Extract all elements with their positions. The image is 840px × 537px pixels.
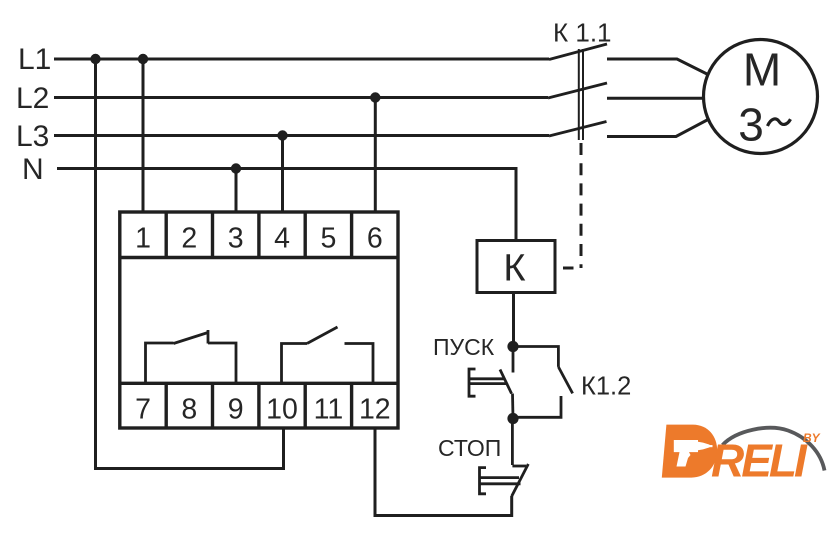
svg-text:RELI: RELI — [711, 435, 808, 487]
svg-text:8: 8 — [181, 394, 197, 426]
svg-text:L2: L2 — [16, 82, 49, 115]
phase wire U to motor — [607, 59, 709, 75]
svg-text:3: 3 — [738, 99, 764, 151]
svg-text:2: 2 — [181, 223, 197, 255]
contactor contact K1.1 bars — [579, 49, 583, 140]
svg-text:К 1.1: К 1.1 — [553, 18, 612, 48]
svg-text:6: 6 — [367, 223, 383, 255]
junction N terminal 3 — [231, 163, 241, 173]
wire L2 — [54, 96, 548, 99]
wire L3 — [54, 134, 549, 137]
logo letter D with drill — [662, 425, 717, 478]
svg-text:11: 11 — [314, 394, 344, 426]
relay A1 outline — [120, 212, 398, 428]
svg-text:К: К — [503, 248, 525, 290]
junction L1 bypass — [90, 54, 100, 64]
wire N to coil K — [57, 169, 516, 241]
relay contact 7-9 — [146, 330, 237, 383]
svg-text:L1: L1 — [18, 43, 51, 76]
svg-text:4: 4 — [274, 223, 290, 255]
dash at coil — [563, 267, 574, 270]
logo swoosh — [723, 428, 825, 471]
relay terminal strip lines — [120, 212, 398, 428]
svg-text:К1.2: К1.2 — [581, 373, 631, 401]
svg-text:7: 7 — [135, 394, 151, 426]
phase wire V to motor — [607, 97, 704, 100]
wire L1 bypass to terminal 10 — [96, 59, 284, 469]
svg-text:3: 3 — [228, 223, 244, 255]
junction L3 terminal 4 — [277, 130, 287, 140]
svg-text:ПУСК: ПУСК — [433, 334, 495, 360]
start button SB1 ПУСК — [469, 347, 513, 419]
svg-text:1: 1 — [135, 223, 151, 255]
svg-text:N: N — [22, 153, 44, 186]
junction L2 terminal 6 — [370, 92, 380, 102]
junction L1 terminal 1 — [138, 54, 148, 64]
motor M1 circle — [704, 40, 818, 154]
svg-text:СТОП: СТОП — [438, 435, 501, 461]
relay contact 10-12 — [282, 327, 374, 383]
wire terminal 12 to stop button — [375, 428, 512, 516]
junction start top — [507, 341, 518, 352]
svg-text:BY: BY — [803, 431, 821, 445]
dashed mechanical link to coil — [580, 143, 583, 268]
wire N to terminal 3 — [235, 169, 238, 213]
svg-text:10: 10 — [266, 394, 298, 426]
motor label tilde — [768, 119, 791, 126]
wire coil K to start junction — [512, 293, 515, 347]
svg-text:L3: L3 — [16, 120, 49, 153]
wire L1 to terminal 1 — [142, 59, 145, 212]
wire L2 to terminal 6 — [374, 98, 377, 213]
latch contact K1.2 — [513, 347, 573, 418]
stop button SB2 СТОП — [480, 419, 529, 497]
svg-text:5: 5 — [320, 223, 336, 255]
contactor contact K1.1 blades — [548, 44, 607, 136]
coil K box — [477, 241, 555, 293]
phase wire W to motor — [607, 119, 709, 137]
logo DRELI — [662, 425, 825, 487]
svg-text:9: 9 — [228, 394, 244, 426]
svg-text:12: 12 — [359, 394, 391, 426]
wire L1 — [54, 58, 549, 61]
svg-text:М: М — [743, 44, 781, 96]
wire L3 to terminal 4 — [281, 136, 284, 213]
junction start bottom — [507, 413, 518, 424]
